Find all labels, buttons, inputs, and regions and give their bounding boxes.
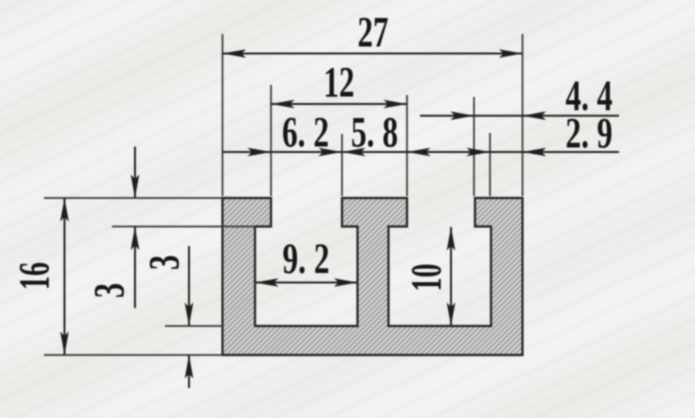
extension line top surface to left (y=198) (44, 197, 223, 199)
dimension 4.4 arrow at 522.5 pointing left (523, 111, 547, 120)
dimension 3 (bottom) lower arrow line (188, 355, 190, 388)
extension line lip depth (y=226.5) (112, 226, 255, 228)
svg-text:12: 12 (324, 60, 355, 107)
dimension 27 arrow right (499, 49, 523, 58)
dimension 9.2 arrow right (334, 278, 358, 287)
dimension 27 line (223, 53, 523, 55)
svg-text:10: 10 (403, 264, 450, 292)
dimension 12 line (271, 103, 407, 105)
dimension 16 line (64, 198, 66, 355)
extension line x=271 (270, 85, 272, 196)
extension line left outer (x=222.5) (222, 34, 224, 196)
dimension 10 arrow up (447, 227, 456, 251)
dimension 3 (bottom) upper arrow line (188, 246, 190, 326)
dimension 12 arrow right (384, 100, 408, 109)
dimension 10 line (450, 227, 452, 326)
svg-text:6. 2: 6. 2 (282, 110, 329, 157)
extension line x=407 (406, 95, 408, 196)
dimension 27 arrow left (223, 49, 247, 58)
arrow tip at x=271 pointing right (248, 148, 272, 157)
dimension 3 (lip depth) lower arrow line (134, 227, 136, 309)
dimension 12 arrow left (271, 100, 295, 109)
dimension 16 arrow down (60, 332, 69, 356)
arrow tip at x=407 pointing left (407, 148, 431, 157)
dimension 9.2 line (255, 282, 358, 284)
profile cross-section (hatched extrusion body) (223, 198, 523, 355)
svg-text:9. 2: 9. 2 (283, 236, 330, 283)
svg-text:2. 9: 2. 9 (566, 111, 613, 158)
arrow tip at x=342 pointing right (6.2 right) (319, 148, 343, 157)
extension line right outer (x=522.5) (522, 34, 524, 196)
extension line x=342 (341, 134, 343, 196)
extension line cavity bottom (y=326) (165, 325, 223, 327)
dimension 9.2 arrow left (255, 278, 279, 287)
dimension 16 arrow up (60, 198, 69, 222)
arrow tip at x=522.5 pointing left (2.9 right) (523, 148, 547, 157)
chain dimension line y=152 (223, 151, 620, 153)
dimension 4.4 arrow at 474 pointing right (451, 111, 475, 120)
dimension 3 (lip depth) upper arrow line (134, 147, 136, 199)
svg-text:3: 3 (141, 255, 188, 270)
dimension 4.4 line (420, 115, 619, 117)
arrow tip at x=490 pointing right (2.9 left) (467, 148, 491, 157)
svg-text:27: 27 (358, 10, 389, 57)
extension line x=474 (473, 97, 475, 196)
extension line x=490 (489, 133, 491, 196)
extension line bottom surface to left (y=355) (44, 354, 223, 356)
svg-text:16: 16 (11, 262, 58, 290)
dimension 10 arrow down (447, 303, 456, 327)
svg-text:5. 8: 5. 8 (351, 110, 398, 157)
arrow tip at x=342 pointing left (5.8 left) (342, 148, 366, 157)
svg-text:3: 3 (86, 283, 133, 298)
